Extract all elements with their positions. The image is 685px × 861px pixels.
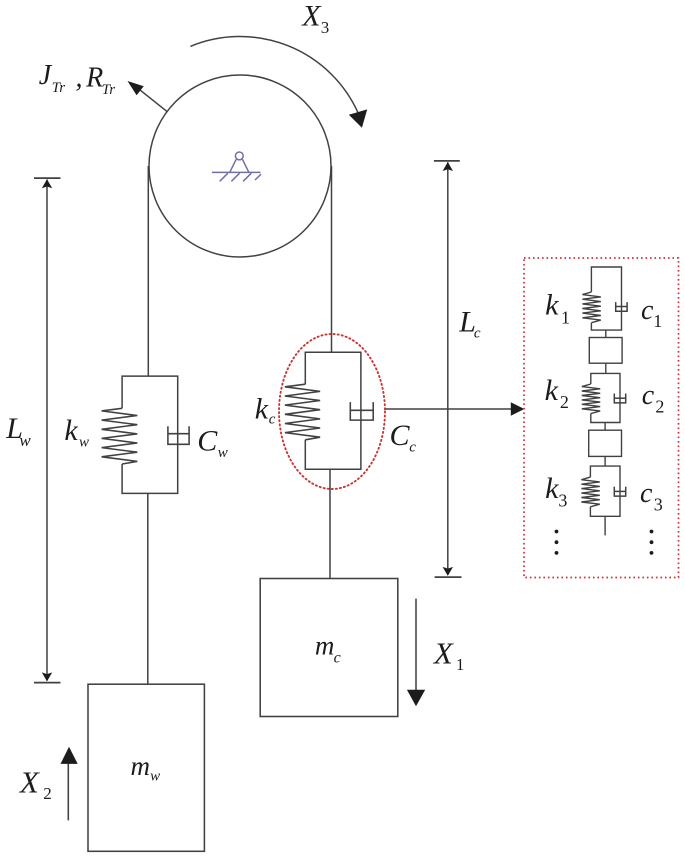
svg-text:3: 3 <box>558 490 567 510</box>
intermediate mass box1 <box>589 338 622 364</box>
label c3 <box>640 478 663 514</box>
link box1 to unit2 <box>605 363 607 373</box>
red dashed detail box <box>524 258 679 578</box>
svg-text:m: m <box>315 631 335 661</box>
svg-text:Tr: Tr <box>52 80 66 96</box>
svg-text:c: c <box>640 478 653 509</box>
wire: rope from kw assembly to mass mw <box>147 493 149 684</box>
rotation arc arrow <box>190 37 358 114</box>
mass mw <box>88 684 204 851</box>
svg-text:w: w <box>150 769 160 785</box>
spring k1 <box>582 292 600 323</box>
label k2 <box>545 374 569 412</box>
label Cc <box>390 419 417 455</box>
svg-text:k: k <box>545 472 559 505</box>
svg-text:c: c <box>642 380 655 411</box>
arrow X1 (downward) <box>407 599 425 707</box>
rotation arc arrowhead <box>349 109 367 127</box>
svg-text:J: J <box>39 60 53 91</box>
svg-text:X: X <box>432 635 454 670</box>
label X1 <box>432 635 465 674</box>
dimension line Lc <box>434 161 462 577</box>
label c1 <box>641 295 662 331</box>
red dotted ellipse around kc assembly <box>279 334 385 489</box>
vertical ellipsis left <box>555 530 559 555</box>
unit1 frame (k1 c1) <box>591 267 621 330</box>
svg-text:k: k <box>255 392 269 425</box>
label X2 <box>18 765 52 804</box>
svg-text:,: , <box>76 63 83 94</box>
damper c1 <box>616 302 627 311</box>
label k1 <box>545 289 570 328</box>
wire: right rope from pulley to kc assembly <box>331 166 333 352</box>
svg-text:2: 2 <box>43 784 52 803</box>
spring k2 <box>582 384 600 414</box>
svg-text:C: C <box>197 425 218 458</box>
label Lc <box>458 306 481 342</box>
label c2 <box>642 380 665 416</box>
link unit2 to box2 <box>604 423 606 431</box>
arrow X2 (upward) <box>61 747 78 821</box>
intermediate mass box2 <box>589 430 622 456</box>
leader arrow to pulley (JTr RTr pointer) <box>128 81 167 111</box>
spring-damper assembly frame (kw Cw) <box>122 376 178 493</box>
svg-text:R: R <box>85 63 103 94</box>
svg-text:c: c <box>269 411 276 427</box>
label kw <box>64 414 89 451</box>
spring k3 <box>581 477 599 507</box>
damper Cc <box>350 402 373 420</box>
svg-text:1: 1 <box>456 655 465 674</box>
spring kc <box>285 384 320 440</box>
svg-text:2: 2 <box>655 396 664 416</box>
svg-text:c: c <box>334 649 341 666</box>
pulley sheave <box>149 75 331 257</box>
Lc top arrowhead <box>443 162 453 171</box>
svg-text:k: k <box>64 414 78 447</box>
svg-text:c: c <box>474 326 481 342</box>
svg-text:c: c <box>641 295 654 326</box>
svg-text:C: C <box>390 419 411 452</box>
spring kw <box>102 408 138 464</box>
arrow from ellipse to detail box <box>386 402 525 415</box>
tail wire below unit3 <box>604 516 606 535</box>
svg-text:k: k <box>545 289 559 322</box>
label k3 <box>545 472 567 510</box>
damper c3 <box>614 487 625 496</box>
svg-text:c: c <box>409 440 416 456</box>
label mw <box>131 751 161 785</box>
svg-text:3: 3 <box>321 18 330 37</box>
Lc bottom arrowhead <box>443 567 453 576</box>
svg-text:Tr: Tr <box>102 82 116 98</box>
svg-text:X: X <box>301 0 322 33</box>
svg-text:1: 1 <box>653 311 662 331</box>
svg-text:1: 1 <box>561 307 570 327</box>
label Cw <box>197 425 227 462</box>
spring-damper assembly frame (kc Cc) <box>305 352 361 469</box>
svg-text:w: w <box>79 435 89 451</box>
damper c2 <box>614 394 625 403</box>
label X3 <box>301 0 329 37</box>
svg-text:w: w <box>218 445 228 461</box>
link unit1 to box1 <box>605 330 607 337</box>
svg-text:w: w <box>19 431 31 450</box>
unit3 frame (k3 c3) <box>590 466 620 516</box>
mass mc <box>260 579 398 717</box>
unit2 frame (k2 c2) <box>591 373 620 422</box>
label Lw <box>5 412 31 450</box>
svg-text:k: k <box>545 374 559 407</box>
svg-text:m: m <box>131 751 151 781</box>
dimension line Lw <box>34 178 61 682</box>
Lw bottom arrowhead <box>42 672 52 681</box>
svg-text:2: 2 <box>560 392 569 412</box>
svg-text:X: X <box>18 765 40 800</box>
link box2 to unit3 <box>604 456 606 466</box>
damper Cw <box>168 426 189 444</box>
wire: left rope from pulley to kw assembly <box>147 166 149 376</box>
label kc <box>255 392 276 427</box>
label JTr , RTr <box>39 60 115 98</box>
svg-text:3: 3 <box>654 495 663 515</box>
pivot support (fixed hinge) <box>212 152 261 181</box>
Lw top arrowhead <box>42 179 52 188</box>
label mc <box>315 631 341 667</box>
vertical ellipsis right <box>650 530 654 555</box>
wire: rope from kc assembly to mass mc <box>329 469 331 578</box>
